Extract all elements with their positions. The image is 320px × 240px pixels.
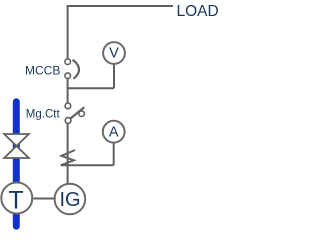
meter A circle [103, 121, 125, 143]
wire: MCCB to Mg.Ctt vertical segment [67, 79, 69, 103]
breaker MCCB top terminal circle [65, 59, 71, 65]
wire: top horizontal to LOAD [67, 5, 173, 7]
svg-text:Mg.Ctt: Mg.Ctt [26, 108, 61, 120]
contactor Mg.Ctt top terminal circle [65, 103, 71, 109]
wire: branch to voltmeter horizontal [67, 87, 114, 89]
valve bowtie body [4, 134, 29, 158]
svg-text:MCCB: MCCB [25, 63, 60, 77]
wire: main bus vertical from LOAD corner to MCCB [67, 5, 69, 59]
breaker MCCB arc blade [73, 60, 79, 79]
flexible link zigzag on generator lead [61, 150, 75, 165]
penstock blue water line [13, 102, 20, 226]
svg-text:A: A [109, 125, 119, 141]
wire: Mg.Ctt to generator vertical segment [67, 123, 69, 184]
svg-text:IG: IG [59, 189, 80, 211]
contactor Mg.Ctt blade circle [79, 111, 85, 117]
contactor Mg.Ctt blade line [70, 107, 85, 119]
wire: turbine to generator shaft link [33, 198, 54, 200]
wire: ammeter stem vertical [113, 143, 115, 165]
breaker MCCB bottom terminal circle [65, 73, 71, 79]
generator IG circle [55, 184, 86, 215]
meter V circle [103, 42, 125, 64]
wire: voltmeter stem vertical [113, 65, 115, 89]
contactor Mg.Ctt bottom terminal circle [65, 118, 71, 124]
svg-text:T: T [8, 187, 23, 215]
svg-text:V: V [109, 46, 119, 62]
turbine T circle [1, 183, 32, 214]
svg-text:LOAD: LOAD [177, 3, 219, 20]
wire: branch to ammeter horizontal [61, 164, 114, 166]
